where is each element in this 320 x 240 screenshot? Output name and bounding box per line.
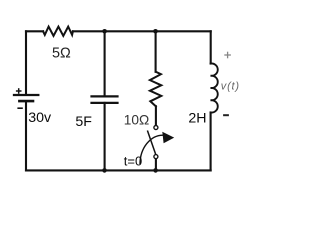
switch arrowhead [162, 132, 174, 144]
switch actuation arrow arc [140, 135, 163, 164]
wire top middle segment [73, 30, 105, 32]
junction dot switch bottom [153, 168, 158, 173]
svg-text:10Ω: 10Ω [124, 113, 149, 128]
wire inductor top lead [210, 31, 212, 63]
wire 10ohm bottom lead to switch contact [155, 106, 157, 125]
battery minus sign [17, 107, 22, 109]
wire capacitor bottom lead [104, 103, 106, 170]
battery V1 short plate [19, 100, 33, 103]
wire bottom [26, 169, 211, 171]
wire top right segment [156, 30, 211, 32]
capacitor C1 top plate [92, 95, 118, 97]
switch S1 top contact [154, 126, 158, 130]
junction dot cap bottom [102, 168, 107, 173]
svg-text:2H: 2H [188, 110, 206, 126]
svg-text:5Ω: 5Ω [52, 45, 71, 61]
wire capacitor top lead [104, 31, 106, 96]
wire top segment to node B [105, 30, 156, 32]
battery plus sign [16, 88, 22, 94]
capacitor C1 bottom plate [92, 102, 118, 104]
node B junction dot (10ohm top) [153, 29, 158, 34]
svg-text:30v: 30v [28, 110, 52, 126]
switch S1 bottom contact [154, 155, 158, 159]
wire top-left segment [26, 30, 43, 32]
wire left upper (to battery) [25, 31, 27, 95]
resistor R2 10ohm zigzag [150, 72, 161, 107]
node A junction dot (cap top) [102, 29, 107, 34]
switch S1 blade [147, 131, 155, 155]
battery V1 long plate [14, 94, 38, 96]
wire 10ohm top lead [155, 31, 157, 72]
wire switch bottom lead [155, 159, 157, 171]
resistor R1 5ohm zigzag [43, 27, 73, 36]
wire inductor bottom lead [210, 113, 212, 171]
svg-text:v(t): v(t) [221, 80, 240, 92]
wire left lower (battery to bottom) [25, 101, 27, 170]
inductor voltage minus sign [223, 114, 229, 116]
svg-text:t=0: t=0 [124, 154, 142, 169]
inductor L1 2H coil [211, 63, 218, 112]
inductor voltage plus sign [224, 52, 231, 59]
svg-text:5F: 5F [75, 114, 92, 130]
